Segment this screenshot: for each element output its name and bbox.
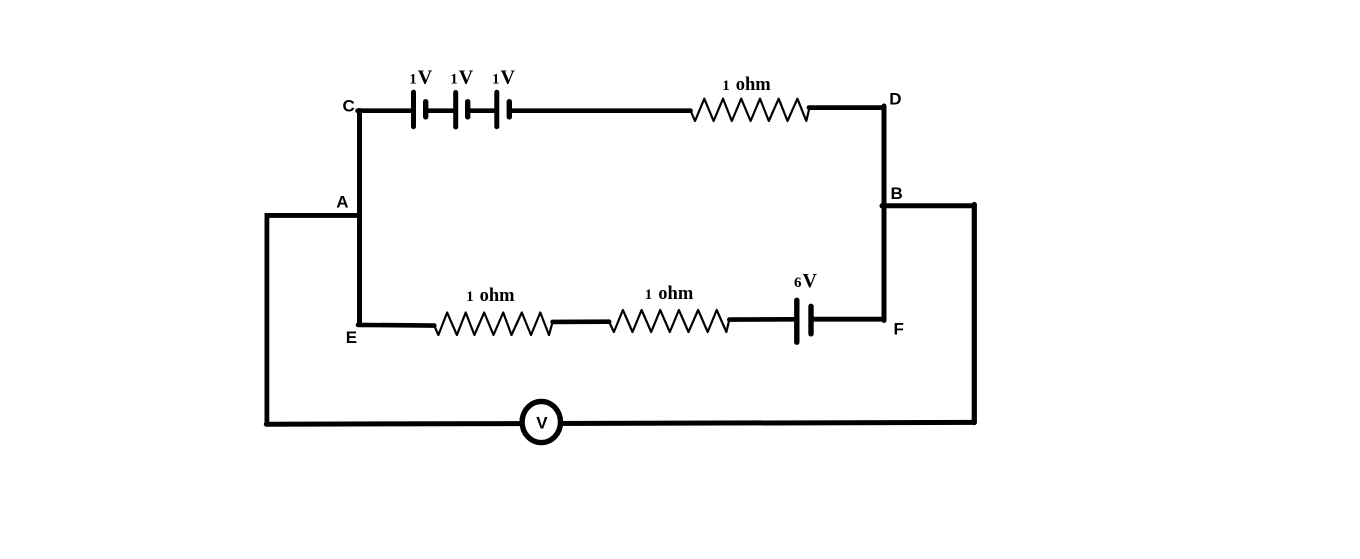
- battery cell B2 1V long plate: [453, 93, 458, 128]
- wire bottom: [266, 422, 974, 424]
- wire left vertical: [264, 213, 269, 424]
- svg-text:1ohm: 1ohm: [722, 75, 771, 95]
- battery B4 6V short plate: [808, 306, 813, 334]
- wire A to left: [265, 213, 359, 218]
- voltmeter V circle: [522, 401, 560, 442]
- svg-text:B: B: [891, 184, 903, 203]
- wire D-B-F vertical: [882, 106, 887, 321]
- wire B4 to node F: [811, 317, 884, 322]
- resistor R3 1 ohm zigzag: [609, 310, 729, 332]
- svg-text:A: A: [336, 193, 348, 212]
- battery cell B2 1V short plate: [465, 102, 470, 117]
- battery cell B1 1V short plate: [423, 102, 428, 117]
- svg-text:1ohm: 1ohm: [645, 284, 694, 304]
- wire C-A-E vertical: [357, 111, 362, 325]
- wire right vertical: [972, 205, 977, 423]
- wire B to right: [882, 203, 974, 208]
- svg-text:E: E: [346, 328, 357, 347]
- wire B2 to B3: [468, 108, 497, 113]
- wire R3 to battery B4: [729, 317, 793, 322]
- battery B4 6V long plate: [794, 300, 799, 342]
- wire B3 to resistor R1: [509, 108, 690, 113]
- resistor R2 1 ohm zigzag: [434, 313, 552, 336]
- wire R2 to R3: [553, 319, 610, 324]
- svg-text:F: F: [894, 319, 904, 338]
- battery cell B3 1V long plate: [494, 92, 499, 126]
- resistor R1 1 ohm zigzag: [691, 99, 810, 121]
- battery cell B3 1V short plate: [507, 102, 512, 117]
- wire E to resistor R2: [358, 323, 434, 328]
- battery cell B1 1V long plate: [411, 92, 416, 126]
- svg-text:C: C: [343, 97, 355, 116]
- wire R1 to node D: [809, 105, 884, 110]
- svg-text:V: V: [536, 414, 548, 433]
- wire B1 to B2: [426, 108, 456, 113]
- svg-text:D: D: [889, 90, 901, 109]
- svg-text:1ohm: 1ohm: [466, 286, 515, 306]
- wire C to battery B1: [358, 108, 412, 113]
